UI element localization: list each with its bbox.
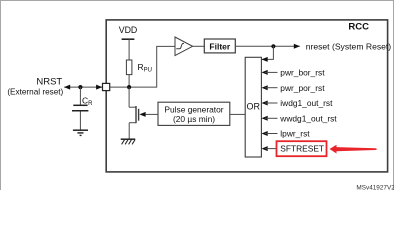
arrowhead into OR (from filter) xyxy=(262,57,268,62)
signal wwdg1_out_rst xyxy=(262,113,338,123)
nreset arrowhead xyxy=(294,44,300,49)
svg-text:MSv41927V2: MSv41927V2 xyxy=(356,185,394,190)
wire NRST external xyxy=(64,86,102,88)
signal pwr_bor_rst xyxy=(262,68,326,78)
svg-text:nreset (System Reset): nreset (System Reset) xyxy=(306,42,392,52)
VDD supply xyxy=(119,25,138,39)
filter block xyxy=(204,39,235,53)
transistor Q1 (NMOS pull-down) xyxy=(129,87,139,139)
signal pwr_por_rst xyxy=(262,83,326,93)
svg-text:lpwr_rst: lpwr_rst xyxy=(280,129,310,139)
svg-text:(External reset): (External reset) xyxy=(7,87,63,96)
NRST right arrowhead xyxy=(96,85,102,90)
capacitor CR xyxy=(72,87,88,130)
wire NRST internal (pad to corner, up to schmitt input) xyxy=(110,46,175,87)
schmitt trigger U1 xyxy=(175,37,193,56)
svg-text:OR: OR xyxy=(247,101,261,111)
signal iwdg1_out_rst xyxy=(262,98,334,108)
ground for CR xyxy=(73,130,88,135)
svg-text:pwr_bor_rst: pwr_bor_rst xyxy=(280,68,325,78)
NRST left arrowhead xyxy=(64,85,70,90)
svg-text:Filter: Filter xyxy=(209,41,230,51)
SFTRESET highlight box xyxy=(277,141,327,156)
wire filter to nreset arrow xyxy=(235,45,299,47)
svg-text:RCC: RCC xyxy=(348,22,369,33)
wire schmitt to filter xyxy=(193,45,205,47)
svg-text:iwdg1_out_rst: iwdg1_out_rst xyxy=(280,98,333,108)
wire pulse generator to gate xyxy=(142,113,158,115)
OR gate xyxy=(245,57,261,157)
wire VDD to RPU xyxy=(128,39,130,60)
svg-text:VDD: VDD xyxy=(119,25,138,35)
wire OR output to pulse generator xyxy=(230,113,245,115)
NRST net label xyxy=(7,77,63,97)
svg-text:wwdg1_out_rst: wwdg1_out_rst xyxy=(279,113,337,123)
node: NRST-CR junction xyxy=(78,85,82,89)
svg-text:(20 µs min): (20 µs min) xyxy=(173,114,215,124)
svg-text:SFTRESET: SFTRESET xyxy=(280,144,324,154)
red annotation arrow xyxy=(330,145,378,154)
node: filter output junction xyxy=(271,44,275,48)
resistor RPU xyxy=(126,60,131,87)
wire filter junction to OR top input xyxy=(262,46,274,59)
node: NRST-RPU-drain junction xyxy=(127,85,131,89)
ground for transistor (earth symbol) xyxy=(121,139,136,144)
svg-text:Pulse generator: Pulse generator xyxy=(164,104,223,114)
pulse generator block xyxy=(158,102,230,125)
svg-text:NRST: NRST xyxy=(36,77,62,88)
gate arrowhead xyxy=(139,112,145,117)
NRST pin pad xyxy=(103,83,110,90)
signal lpwr_rst xyxy=(262,129,311,139)
RCC block boundary xyxy=(106,20,387,172)
svg-text:pwr_por_rst: pwr_por_rst xyxy=(280,83,325,93)
signal SFTRESET xyxy=(262,144,325,154)
